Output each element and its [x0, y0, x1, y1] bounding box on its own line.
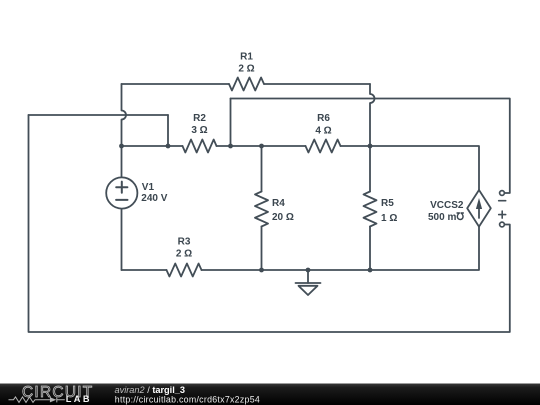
VCCS2 plus control terminal circle	[500, 222, 505, 227]
V1 plus sign	[116, 182, 127, 193]
resistor R4 zigzag (vertical)	[255, 192, 268, 227]
wire R5 top stub	[369, 146, 371, 192]
voltage source V1 circle	[106, 177, 137, 208]
svg-text:LAB: LAB	[66, 394, 92, 404]
svg-text:R1: R1	[240, 52, 253, 63]
footer logo diode bar and wire	[57, 397, 65, 402]
wire y=98.5 from node above R2-right to VCCS minus terminal via right side	[231, 99, 510, 194]
svg-text:1 Ω: 1 Ω	[381, 213, 397, 224]
svg-text:2 Ω: 2 Ω	[238, 63, 254, 74]
wire middle y=146 segment R6-right to node x=369	[341, 145, 371, 147]
svg-text:500 m℧: 500 m℧	[428, 212, 464, 223]
svg-text:3 Ω: 3 Ω	[191, 125, 207, 136]
wire top-left (node between R1 and V1 branch), y=84	[122, 83, 230, 85]
V1 minus sign	[116, 199, 127, 201]
wire vertical x=168 down to middle wire	[167, 115, 169, 146]
resistor R5 zigzag (vertical)	[364, 192, 377, 227]
VCCS2 arrow head	[476, 198, 482, 209]
svg-text:R6: R6	[317, 113, 330, 124]
svg-text:2 Ω: 2 Ω	[176, 249, 192, 260]
footer logo diode triangle	[50, 397, 56, 402]
footer logo resistor zigzag	[9, 397, 50, 403]
wire ground rail right segment (R3 to VCCS2 bottom)	[202, 227, 480, 270]
wire outer loop: left side, bottom, right side up to VCCS plus terminal	[29, 115, 510, 332]
VCCS2 arrow shaft	[478, 208, 480, 218]
svg-text:VCCS2: VCCS2	[430, 200, 464, 211]
svg-text:4 Ω: 4 Ω	[315, 125, 331, 136]
svg-text:R2: R2	[193, 113, 206, 124]
wire R4 top stub	[261, 146, 263, 192]
wire ground rail left segment (V1 to R3)	[122, 269, 167, 271]
svg-text:R5: R5	[381, 198, 394, 209]
VCCS2 minus label	[499, 200, 506, 202]
svg-text:240 V: 240 V	[141, 193, 167, 204]
wire V1 top stub	[121, 146, 123, 178]
wire y=115 from outer left loop to x=168	[29, 114, 169, 116]
wire vertical x=230.5 down to middle wire	[230, 99, 232, 147]
VCCS2 diamond body	[467, 190, 491, 227]
junction node x=168 y=146	[166, 144, 171, 149]
svg-text:http://circuitlab.com/crd6tx7x: http://circuitlab.com/crd6tx7x2zp54	[115, 394, 260, 404]
svg-text:V1: V1	[142, 182, 155, 193]
svg-text:R3: R3	[178, 237, 191, 248]
wire middle y=146 left segment (V1 node to R2)	[122, 145, 183, 147]
wire top-right of R1, y=84	[264, 83, 370, 85]
junction node R4 bottom	[259, 268, 264, 273]
footer black bar	[0, 384, 540, 405]
junction node R5 bottom	[368, 268, 373, 273]
ground symbol stub	[307, 270, 309, 283]
svg-text:R4: R4	[272, 198, 285, 209]
wire vertical x=121.5 from top wire down to middle node, with hop over y=115 wire	[122, 84, 127, 146]
wire V1 bottom stub down to ground rail	[121, 209, 123, 270]
VCCS2 minus control terminal circle	[500, 191, 505, 196]
junction node V1/R2 branch top	[119, 144, 124, 149]
junction node ground tap	[306, 268, 311, 273]
resistor R1 zigzag	[229, 78, 264, 91]
junction node R4 top	[259, 144, 264, 149]
resistor R6 zigzag	[306, 140, 341, 153]
wire middle y=146 segment R2 to R6	[217, 145, 306, 147]
ground symbol bar	[296, 282, 321, 284]
wire R5 bottom stub	[369, 227, 371, 271]
wire from node x=369 to VCCS2 top terminal	[370, 146, 479, 190]
wire vertical x=369 from top wire down to middle node, with hop over y=98.5 wire	[370, 84, 375, 146]
resistor R3 zigzag	[167, 264, 202, 277]
svg-text:aviran2 / targil_3: aviran2 / targil_3	[115, 385, 186, 395]
resistor R2 zigzag	[183, 140, 217, 153]
wire R4 bottom stub	[261, 227, 263, 271]
svg-text:20 Ω: 20 Ω	[272, 212, 294, 223]
junction node x=230.5 y=146	[228, 144, 233, 149]
VCCS2 plus label	[499, 211, 506, 218]
junction node R5/R6/R1 x=369 y=146	[368, 144, 373, 149]
ground symbol triangle	[299, 286, 318, 295]
